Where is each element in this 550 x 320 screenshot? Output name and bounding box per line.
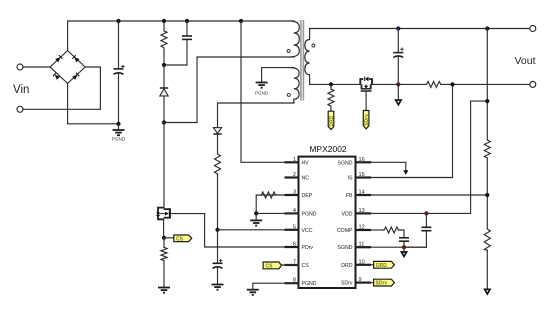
svg-text:MPX2002: MPX2002 — [309, 144, 347, 154]
svg-text:6: 6 — [293, 242, 296, 248]
resistor R comp — [371, 227, 404, 238]
wire Vin+ to bridge left — [23, 66, 50, 68]
wire aux bottom to VCC diode — [218, 103, 295, 128]
svg-text:SDrv: SDrv — [341, 281, 353, 287]
sgnd arrow (divider) — [485, 289, 490, 294]
sgnd arrow (pin11) — [401, 247, 406, 256]
svg-text:SDrv: SDrv — [376, 281, 388, 287]
node drain junction — [162, 120, 166, 124]
wire pin16 SGND — [371, 162, 406, 170]
svg-text:2: 2 — [293, 172, 296, 178]
secondary winding — [305, 29, 310, 85]
divider column — [484, 29, 490, 289]
wire pin13 VDD — [371, 101, 487, 213]
svg-text:PGND: PGND — [302, 211, 317, 217]
secondary phase dot — [312, 44, 315, 47]
terminal Vout+ — [530, 26, 536, 32]
IC pin labels — [302, 160, 354, 287]
wire Vin- to bridge right loop — [23, 67, 100, 109]
svg-text:11: 11 — [359, 242, 365, 248]
ground PGND (aux) — [255, 83, 269, 96]
primary phase dot — [287, 50, 290, 53]
svg-text:DEP: DEP — [302, 193, 313, 199]
node rail-HV line — [239, 19, 243, 23]
diode D vcc — [213, 128, 221, 154]
capacitor C1 bulk — [114, 21, 125, 124]
flag DRD (pin10) — [371, 261, 394, 268]
IC right pin stubs — [356, 162, 372, 282]
node rail-C1 — [116, 19, 120, 23]
svg-text:CS: CS — [302, 263, 310, 269]
svg-text:DRD: DRD — [376, 263, 387, 269]
node VDD cap — [424, 211, 428, 215]
capacitor C snubber — [164, 21, 192, 65]
capacitor C vdd — [404, 213, 431, 247]
flag SDrv (vertical) — [363, 111, 370, 129]
aux winding — [291, 68, 300, 103]
wire secondary top rail — [310, 28, 530, 30]
wire pin8 PGND — [253, 283, 299, 289]
wire pin11 SGND — [371, 246, 426, 248]
ground (pin4) — [250, 213, 262, 225]
svg-text:IS: IS — [348, 176, 353, 182]
node C1 bottom / PGND — [116, 122, 120, 126]
transformer T1 — [287, 20, 315, 103]
wire pin14 FB — [371, 194, 487, 196]
svg-text:12: 12 — [359, 225, 365, 231]
resistor R out sense — [425, 81, 442, 87]
svg-text:16: 16 — [359, 157, 365, 163]
ground (cs) — [158, 288, 170, 293]
wire secondary bottom rail left — [310, 83, 361, 85]
svg-text:DRD: DRD — [341, 263, 352, 269]
terminal Vin+ — [17, 64, 23, 70]
svg-text:DRD: DRD — [329, 115, 335, 126]
aux phase dot — [287, 93, 290, 96]
wire bridge bottom to PGND node — [68, 83, 119, 123]
wire rail to Vout- — [442, 83, 530, 85]
svg-text:NC: NC — [302, 176, 310, 182]
resistor R vcc — [215, 154, 221, 230]
flag CS (left) — [164, 235, 192, 242]
resistor R cs — [161, 238, 167, 287]
mosfet Q1 primary — [156, 123, 170, 238]
svg-text:VDD: VDD — [342, 211, 353, 217]
node rail-R snubber — [162, 19, 166, 23]
wire clamp to primary bottom — [164, 57, 294, 123]
svg-text:PGND: PGND — [255, 91, 269, 96]
svg-text:VCC: VCC — [302, 228, 313, 234]
svg-text:HV: HV — [302, 160, 310, 166]
wire bridge top to HV rail — [67, 21, 69, 51]
svg-text:Vin: Vin — [13, 84, 29, 96]
ground PGND (bulk) — [112, 124, 126, 142]
wire aux top to PGND — [262, 68, 294, 82]
node rail-C snubber — [185, 19, 189, 23]
svg-text:CS: CS — [266, 263, 274, 269]
svg-text:COMP: COMP — [337, 228, 353, 234]
node FB — [485, 193, 489, 197]
svg-text:5: 5 — [293, 224, 296, 230]
resistor R snubber — [161, 21, 167, 65]
svg-text:PDrv: PDrv — [302, 245, 314, 251]
svg-text:13: 13 — [359, 208, 365, 214]
sgnd arrow (cout) — [396, 84, 401, 104]
sgnd arrow (pin16) — [403, 170, 408, 175]
ground (vcc cap) — [212, 285, 224, 290]
terminal Vin- — [17, 106, 23, 112]
node rail-Cout — [396, 26, 400, 30]
wire HV rail top — [68, 20, 294, 22]
IC U1 MPX2002 — [299, 144, 356, 288]
node VCC junction — [215, 228, 219, 232]
node IS tap — [450, 82, 454, 86]
capacitor C comp — [399, 238, 409, 247]
wire pin4 — [256, 212, 298, 214]
wire secondary bottom rail right — [372, 83, 425, 85]
svg-text:9: 9 — [359, 277, 362, 283]
svg-text:15: 15 — [359, 172, 365, 178]
flag DRD (vertical) — [328, 111, 335, 129]
svg-text:14: 14 — [359, 190, 365, 196]
core — [300, 20, 302, 101]
node Cout bottom — [396, 82, 400, 86]
node VDD tap — [485, 99, 489, 103]
capacitor C out — [393, 29, 403, 85]
primary winding — [291, 21, 300, 57]
wire VCC line to pin5 — [218, 229, 299, 231]
flag CS (pin7) — [263, 262, 298, 269]
flag SDrv (pin9) — [371, 279, 394, 286]
IC pin numbers — [293, 157, 365, 284]
node snubber junction — [162, 63, 166, 67]
svg-text:PGND: PGND — [112, 137, 126, 142]
node source/CS — [162, 236, 166, 240]
wire gate to SDrv flag — [365, 92, 367, 111]
svg-text:PGND: PGND — [302, 281, 317, 287]
svg-text:FB: FB — [346, 193, 353, 199]
wire HV to pin1 — [241, 21, 299, 162]
svg-text:10: 10 — [359, 259, 365, 265]
svg-text:SGND: SGND — [338, 160, 353, 166]
node pin4 PGND — [254, 211, 258, 215]
capacitor C vcc — [213, 230, 223, 284]
svg-text:1: 1 — [293, 157, 296, 163]
resistor R dep (pin3) — [256, 192, 284, 213]
svg-text:SGND: SGND — [338, 245, 353, 251]
terminal Vout- — [530, 81, 536, 87]
svg-text:3: 3 — [293, 190, 296, 196]
svg-text:SDrv: SDrv — [364, 114, 370, 126]
node rail-divider — [485, 26, 489, 30]
wire pin15 IS — [371, 84, 453, 177]
svg-text:Vout: Vout — [515, 55, 536, 67]
diode D clamp — [160, 65, 168, 123]
IC left pin stubs — [285, 162, 299, 283]
node comp/sgnd — [402, 245, 406, 249]
mosfet Q2 sync — [360, 77, 372, 91]
svg-text:CS: CS — [176, 236, 184, 242]
wire gate to PDrv — [171, 214, 299, 247]
bridge rectifier BR1 — [50, 51, 85, 84]
node DRD tap — [329, 82, 333, 86]
resistor R drd — [328, 84, 334, 111]
ground (pin8) — [247, 290, 259, 295]
